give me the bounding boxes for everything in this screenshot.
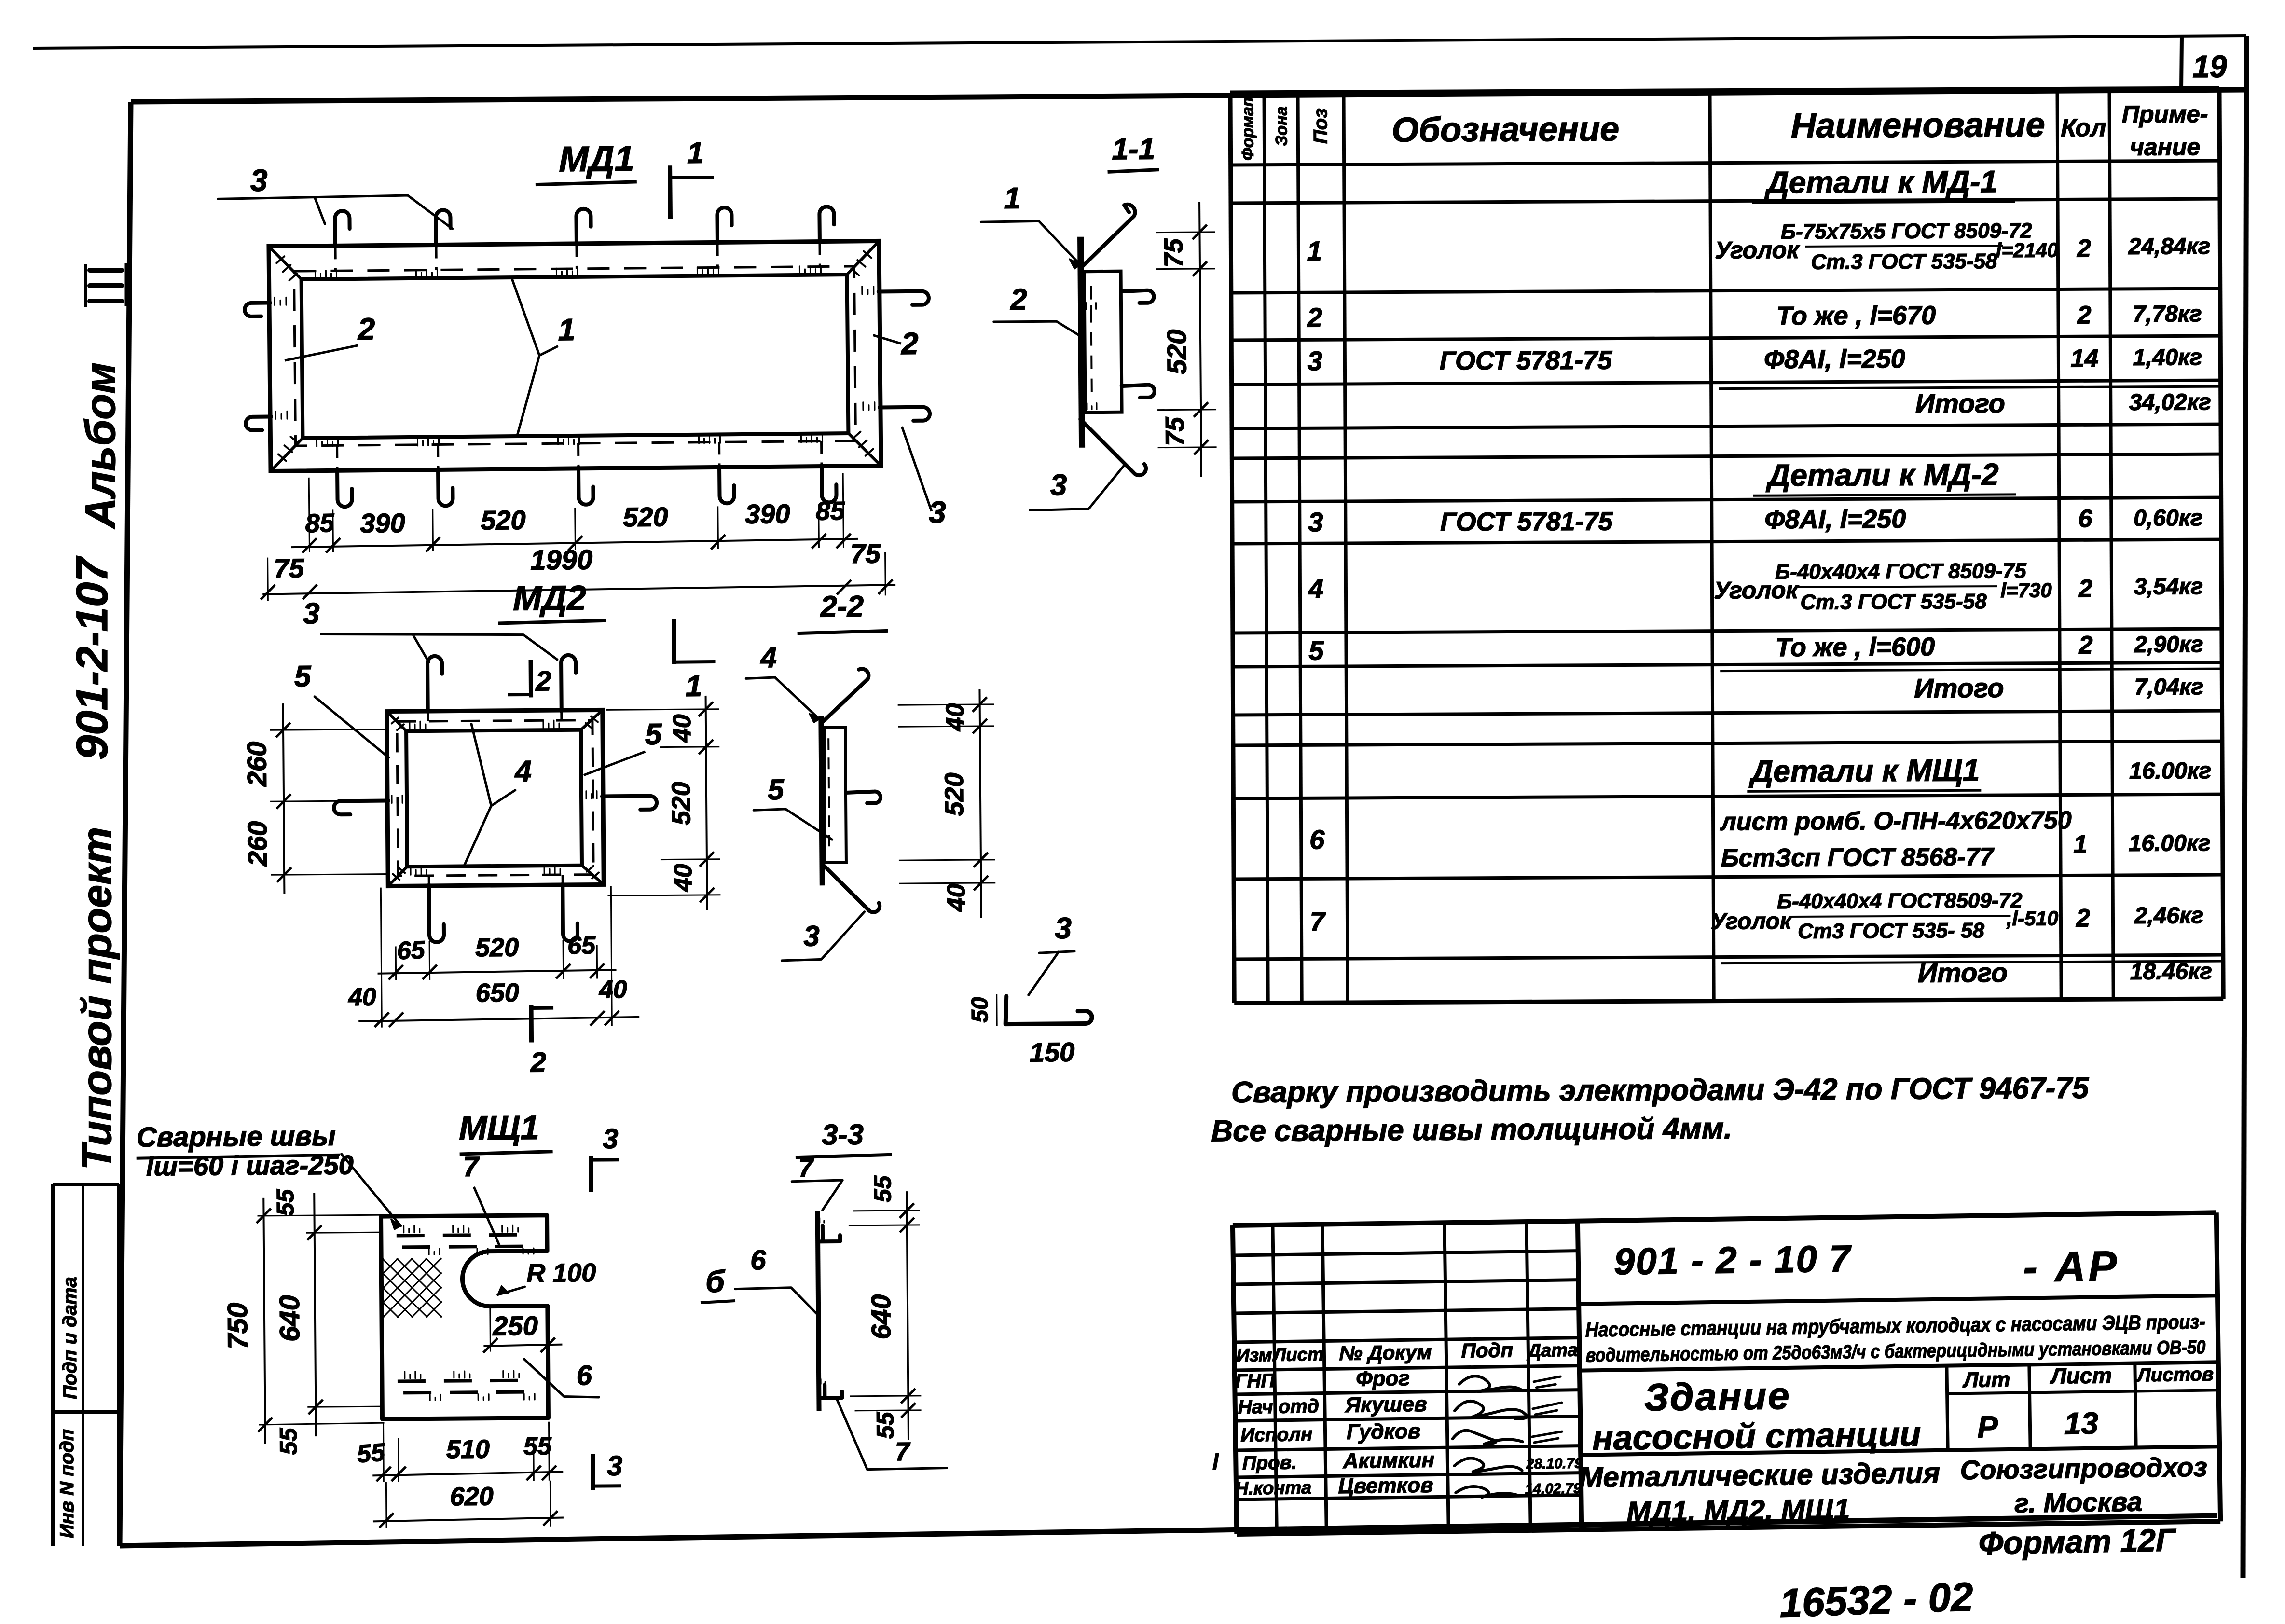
svg-text:чание: чание: [2130, 133, 2201, 161]
svg-text:Пров.: Пров.: [1242, 1452, 1297, 1473]
lit list listov grid: [1947, 1366, 1948, 1450]
sheet top edge line: [33, 36, 2246, 48]
svg-text:Цветков: Цветков: [1338, 1473, 1433, 1499]
svg-text:55: 55: [356, 1438, 386, 1468]
svg-text:640: 640: [866, 1294, 896, 1340]
svg-text:7: 7: [1310, 906, 1326, 936]
svg-text:Ф8АI, l=250: Ф8АI, l=250: [1764, 505, 1906, 534]
svg-text:2: 2: [2077, 301, 2091, 329]
svg-text:18.46кг: 18.46кг: [2130, 959, 2212, 985]
svg-text:85: 85: [816, 496, 846, 526]
svg-text:Приме-: Приме-: [2122, 100, 2208, 128]
svg-text:Листов: Листов: [2136, 1363, 2214, 1386]
MShch1 dim 750 left: [263, 1198, 265, 1444]
svg-text:1-1: 1-1: [1112, 133, 1155, 166]
svg-text:,l-510: ,l-510: [2006, 907, 2059, 930]
svg-text:5: 5: [1308, 635, 1324, 665]
svg-text:3: 3: [303, 597, 320, 631]
svg-text:75: 75: [850, 538, 881, 569]
svg-text:3: 3: [603, 1123, 619, 1155]
svg-text:150: 150: [1030, 1037, 1075, 1068]
MD2 dimension 65-520-65: [378, 970, 617, 973]
MShch1 plate pos.6 outline with R100 slot: [381, 1215, 549, 1419]
svg-text:6: 6: [576, 1360, 592, 1391]
svg-text:2,90кг: 2,90кг: [2134, 632, 2203, 658]
svg-text:75: 75: [1159, 238, 1188, 267]
svg-text:Поз: Поз: [1310, 108, 1331, 144]
svg-text:19: 19: [2192, 49, 2227, 84]
svg-text:Гудков: Гудков: [1347, 1419, 1421, 1444]
MD2 dimension 40-520-40 right: [706, 696, 707, 910]
svg-text:Н.конта: Н.конта: [1235, 1478, 1312, 1499]
svg-text:3,54кг: 3,54кг: [2134, 574, 2203, 600]
svg-text:40: 40: [668, 714, 696, 743]
svg-text:Типовой проект: Типовой проект: [74, 827, 120, 1170]
svg-text:55: 55: [872, 1411, 899, 1439]
svg-text:Итого: Итого: [1915, 388, 2006, 419]
svg-text:Здание: Здание: [1644, 1374, 1791, 1419]
svg-text:3: 3: [607, 1450, 623, 1482]
spec table grid: [1230, 93, 1234, 1003]
svg-text:901 - 2 - 10 7: 901 - 2 - 10 7: [1613, 1237, 1852, 1282]
svg-text:50: 50: [967, 997, 993, 1023]
svg-text:7,78кг: 7,78кг: [2133, 301, 2202, 327]
svg-text:лист ромб. О-ПН-4х620х750: лист ромб. О-ПН-4х620х750: [1719, 806, 2071, 836]
MD1 anchor hooks pos.3 top: [335, 211, 350, 247]
svg-text:3: 3: [1055, 912, 1072, 945]
detail 3 bent bar: [1005, 995, 1092, 1024]
2-2 plate pos.4: [821, 716, 822, 885]
svg-text:3: 3: [803, 920, 820, 952]
svg-text:2: 2: [2078, 575, 2092, 603]
sheet number box 19: [2181, 37, 2182, 91]
3-3 bottom angle pos.7: [820, 1385, 842, 1398]
title block revision grid: [1233, 1251, 1578, 1255]
svg-text:Детали к МД-2: Детали к МД-2: [1765, 457, 1999, 493]
MD1 anchor hooks pos.3 left: [245, 303, 270, 316]
svg-text:85: 85: [305, 509, 335, 538]
svg-text:650: 650: [476, 978, 520, 1008]
svg-text:14: 14: [2070, 344, 2098, 372]
svg-text:Нач отд: Нач отд: [1238, 1396, 1319, 1418]
2-2 bottom diagonal hook pos.3: [825, 866, 880, 912]
svg-text:2: 2: [357, 312, 375, 346]
svg-text:0,60кг: 0,60кг: [2134, 505, 2203, 531]
svg-text:2: 2: [535, 665, 551, 697]
MD1 dimension row 75-1990-75: [262, 585, 895, 594]
svg-text:Ст.3 ГОСТ 535-58: Ст.3 ГОСТ 535-58: [1811, 249, 1997, 274]
svg-text:Обозначение: Обозначение: [1391, 110, 1619, 150]
svg-text:2: 2: [901, 326, 919, 361]
svg-text:2: 2: [2077, 234, 2091, 262]
svg-text:520: 520: [1161, 329, 1192, 374]
svg-text:16.00кг: 16.00кг: [2129, 830, 2211, 856]
svg-text:7: 7: [798, 1153, 814, 1182]
svg-text:250: 250: [492, 1310, 538, 1341]
svg-text:То же , l=600: То же , l=600: [1776, 633, 1935, 662]
svg-text:R 100: R 100: [526, 1258, 596, 1288]
svg-text:3-3: 3-3: [822, 1118, 864, 1151]
svg-text:65: 65: [567, 932, 596, 960]
3-3 plate pos.6: [818, 1211, 819, 1411]
svg-text:Лист: Лист: [1272, 1345, 1324, 1365]
1-1 angles pos.2: [1084, 271, 1122, 413]
svg-text:2: 2: [2076, 904, 2090, 932]
svg-text:Инв N подп: Инв N подп: [56, 1429, 78, 1538]
svg-text:lш=60 i шаг-250: lш=60 i шаг-250: [146, 1150, 354, 1182]
svg-text:Подп: Подп: [1461, 1338, 1513, 1362]
2-2 angle pos.5: [824, 727, 846, 862]
svg-text:г. Москва: г. Москва: [2014, 1486, 2143, 1518]
svg-text:901-2-107: 901-2-107: [68, 556, 117, 760]
svg-text:520: 520: [940, 772, 969, 816]
svg-text:Сварные швы: Сварные швы: [137, 1120, 336, 1153]
MShch1 top weld seams: [397, 1235, 534, 1236]
MD2 hooks pos.3 bottom: [429, 885, 444, 942]
svg-text:То же , l=670: То же , l=670: [1776, 301, 1936, 330]
svg-text:1: 1: [685, 670, 702, 703]
svg-text:7: 7: [463, 1151, 480, 1183]
MD2 dimension 260-260 left: [283, 703, 285, 894]
svg-text:Исполн: Исполн: [1240, 1424, 1313, 1446]
svg-text:55: 55: [869, 1175, 896, 1202]
svg-text:Все сварные швы толщиной 4м: Все сварные швы толщиной 4мм.: [1211, 1112, 1732, 1148]
svg-text:Б-75х75х5 ГОСТ 8509-72: Б-75х75х5 ГОСТ 8509-72: [1781, 219, 2032, 244]
MD2 hook pos.3 left: [334, 801, 388, 815]
MD2 frame inner opening: [406, 730, 582, 867]
svg-text:6: 6: [1309, 824, 1325, 854]
svg-text:1,40кг: 1,40кг: [2133, 344, 2202, 371]
svg-text:МД1, МД2, МЩ1: МД1, МД2, МЩ1: [1626, 1493, 1850, 1528]
svg-text:Лист: Лист: [2050, 1363, 2112, 1389]
MShch1 bottom weld seams: [398, 1380, 535, 1381]
MD1 frame outer edge: [269, 241, 881, 471]
svg-text:БстЗсп ГОСТ 8568-77: БстЗсп ГОСТ 8568-77: [1721, 843, 1995, 872]
svg-text:65: 65: [397, 936, 426, 965]
2-2 top diagonal hook pos.3: [822, 669, 869, 722]
3-3 label 7 bottom leader: [837, 1400, 947, 1470]
svg-text:Металлические изделия: Металлические изделия: [1579, 1457, 1940, 1494]
svg-text:МД1: МД1: [559, 138, 634, 179]
svg-text:510: 510: [446, 1435, 490, 1464]
signatures scribbles: [1459, 1376, 1523, 1392]
MShch1 dim 620 bottom: [373, 1518, 564, 1522]
svg-text:750: 750: [222, 1303, 254, 1349]
svg-text:ГОСТ 5781-75: ГОСТ 5781-75: [1440, 346, 1613, 376]
MShch1 checkered-plate hatch symbol: [383, 1258, 441, 1317]
svg-text:1: 1: [687, 137, 704, 170]
svg-text:Формат 12Г: Формат 12Г: [1978, 1522, 2176, 1561]
svg-text:Якушев: Якушев: [1345, 1392, 1427, 1417]
svg-text:1990: 1990: [530, 544, 593, 576]
svg-text:Фрог: Фрог: [1356, 1366, 1410, 1390]
svg-text:7: 7: [895, 1437, 911, 1466]
svg-text:Союзгипроводхоз: Союзгипроводхоз: [1960, 1452, 2207, 1486]
svg-text:55: 55: [523, 1432, 552, 1460]
1-1 bottom diagonal hook pos.3: [1080, 419, 1146, 476]
MD2 section cut mark 2 top: [529, 660, 534, 697]
svg-text:16.00кг: 16.00кг: [2129, 758, 2211, 784]
svg-text:№ Докум: № Докум: [1339, 1341, 1432, 1365]
svg-text:40: 40: [348, 983, 376, 1011]
svg-text:520: 520: [623, 501, 668, 532]
svg-text:Наименование: Наименование: [1791, 106, 2045, 145]
svg-text:2: 2: [530, 1046, 546, 1078]
svg-text:3: 3: [1050, 468, 1067, 502]
svg-text:260: 260: [242, 821, 273, 867]
svg-text:Альбом: Альбом: [76, 362, 124, 529]
svg-text:МЩ1: МЩ1: [459, 1109, 539, 1147]
svg-text:Итого: Итого: [1914, 673, 2004, 703]
section cut 3 top right: [589, 1156, 593, 1192]
svg-text:Дата: Дата: [1526, 1340, 1578, 1361]
MD2 hook pos.3 right: [602, 796, 657, 810]
svg-text:- АР: - АР: [2023, 1242, 2120, 1291]
svg-text:2-2: 2-2: [820, 590, 864, 624]
svg-text:l=730: l=730: [2000, 579, 2051, 602]
MD1 dimension row 85-390-520-520-390-85: [291, 539, 858, 547]
svg-text:1: 1: [1004, 182, 1020, 215]
section cut 3 bottom right: [591, 1454, 595, 1490]
svg-text:390: 390: [745, 498, 790, 529]
1-1 angle pos.1 vertical plate: [1081, 237, 1082, 448]
MShch1 dim 640 left: [314, 1193, 316, 1436]
svg-text:520: 520: [475, 933, 519, 963]
MD1 hidden angle edge dashed: [294, 266, 855, 446]
svg-text:14.02.79: 14.02.79: [1525, 1481, 1582, 1498]
svg-text:55: 55: [272, 1188, 299, 1216]
svg-text:620: 620: [450, 1482, 494, 1512]
svg-text:6: 6: [2078, 505, 2092, 533]
svg-text:5: 5: [768, 773, 785, 806]
MD1 corner mitre joints: [269, 246, 302, 280]
svg-text:3: 3: [929, 495, 946, 529]
MD1 anchor hooks pos.3 right: [879, 291, 929, 305]
svg-text:ГНП: ГНП: [1235, 1370, 1276, 1392]
MD1 section cut mark 1 bottom: [672, 619, 676, 664]
3-3 dim 55-640-55: [907, 1191, 908, 1440]
svg-text:28.10.79: 28.10.79: [1526, 1456, 1583, 1473]
2-2 dimension 40-520-40: [979, 689, 981, 918]
left margin stamp table: [51, 1184, 55, 1546]
svg-text:390: 390: [360, 508, 405, 538]
svg-text:Детали к МЩ1: Детали к МЩ1: [1748, 753, 1980, 788]
svg-text:1: 1: [2073, 830, 2087, 858]
svg-text:Детали к МД-1: Детали к МД-1: [1764, 164, 1997, 200]
svg-text:Подп и дата: Подп и дата: [59, 1277, 81, 1399]
svg-text:40: 40: [669, 864, 697, 892]
svg-text:5: 5: [294, 660, 312, 693]
title block outer: [1233, 1212, 2216, 1225]
MD1 anchor hooks pos.3 bottom: [337, 469, 352, 507]
svg-text:640: 640: [274, 1295, 306, 1342]
svg-text:7,04кг: 7,04кг: [2134, 674, 2204, 700]
svg-text:3: 3: [1308, 507, 1323, 537]
svg-text:l=2140: l=2140: [1996, 239, 2059, 262]
svg-text:МД2: МД2: [513, 579, 587, 618]
svg-text:2: 2: [1307, 302, 1322, 332]
2-2 right hook pos.3: [846, 791, 881, 803]
svg-text:520: 520: [667, 782, 696, 826]
MD2 hooks pos.3 top: [427, 656, 442, 712]
MD2 corner mitre joints: [387, 711, 406, 731]
svg-text:Акимкин: Акимкин: [1342, 1448, 1434, 1473]
MShch1 dim 55-510-55 bottom: [372, 1472, 563, 1476]
svg-text:Зона: Зона: [1272, 106, 1291, 146]
svg-text:3: 3: [250, 163, 268, 198]
svg-text:Кол: Кол: [2061, 114, 2106, 142]
svg-text:1: 1: [558, 312, 575, 347]
MD2 frame outer edge: [387, 710, 604, 886]
svg-text:Итого: Итого: [1918, 957, 2008, 988]
svg-text:Насосные станции на трубчатых: Насосные станции на трубчатых колодцах с…: [1585, 1310, 2206, 1341]
3-3 top angle pos.7: [819, 1225, 840, 1241]
svg-text:Б-40х40х4 ГОСТ8509-72: Б-40х40х4 ГОСТ8509-72: [1777, 889, 2023, 913]
svg-text:Ст3 ГОСТ 535- 58: Ст3 ГОСТ 535- 58: [1798, 919, 1984, 943]
svg-text:4: 4: [514, 755, 532, 788]
svg-text:3: 3: [1308, 345, 1322, 376]
svg-text:Б-40х40х4 ГОСТ 8509-75: Б-40х40х4 ГОСТ 8509-75: [1775, 559, 2026, 584]
svg-text:Ф8АI, l=250: Ф8АI, l=250: [1764, 344, 1905, 374]
svg-text:4: 4: [1308, 573, 1323, 604]
svg-text:б: б: [705, 1264, 726, 1299]
svg-text:75: 75: [1160, 416, 1189, 446]
svg-text:34,02кг: 34,02кг: [2129, 389, 2211, 415]
svg-text:l: l: [1212, 1449, 1220, 1474]
svg-text:13: 13: [2064, 1406, 2098, 1441]
svg-text:Лит: Лит: [1962, 1368, 2010, 1392]
svg-text:Ст.3 ГОСТ 535-58: Ст.3 ГОСТ 535-58: [1800, 590, 1987, 614]
1-1 right hooks pos.3: [1121, 290, 1154, 303]
svg-text:40: 40: [942, 883, 970, 912]
MD2 hidden angle edge dashed: [397, 720, 593, 876]
svg-text:Изм: Изм: [1236, 1345, 1272, 1366]
svg-text:Сварку производить электродам: Сварку производить электродами Э-42 по Г…: [1231, 1072, 2090, 1109]
svg-text:55: 55: [275, 1427, 302, 1455]
svg-text:Формат: Формат: [1239, 92, 1257, 161]
svg-text:2: 2: [2078, 631, 2092, 659]
svg-text:ГОСТ 5781-75: ГОСТ 5781-75: [1440, 507, 1613, 537]
drawing frame border: [131, 90, 2246, 102]
svg-text:520: 520: [481, 505, 526, 536]
MD2 section cut mark 2 bottom: [529, 1005, 534, 1042]
svg-text:24,84кг: 24,84кг: [2128, 234, 2210, 260]
svg-text:1: 1: [1307, 235, 1322, 266]
svg-text:16532 - 02: 16532 - 02: [1779, 1574, 1974, 1624]
1-1 top diagonal hook pos.3: [1081, 205, 1135, 267]
svg-text:40: 40: [599, 976, 627, 1004]
svg-text:40: 40: [941, 703, 969, 731]
MD2 dimension 40-650-40: [358, 1017, 639, 1021]
svg-text:260: 260: [241, 742, 272, 787]
svg-text:2: 2: [1010, 283, 1027, 317]
svg-text:2,46кг: 2,46кг: [2134, 903, 2204, 929]
MD1 section cut mark 1 top: [668, 165, 673, 219]
svg-text:75: 75: [274, 553, 304, 584]
MD1 frame inner opening: [302, 275, 849, 438]
svg-text:насосной станции: насосной станции: [1592, 1415, 1921, 1458]
svg-text:5: 5: [645, 718, 662, 751]
1-1 dimension 75-520-75: [1199, 202, 1201, 477]
svg-text:4: 4: [760, 641, 777, 674]
detail 3 dim 50: [996, 994, 997, 1026]
svg-text:6: 6: [750, 1244, 766, 1276]
svg-text:Р: Р: [1977, 1409, 1998, 1445]
